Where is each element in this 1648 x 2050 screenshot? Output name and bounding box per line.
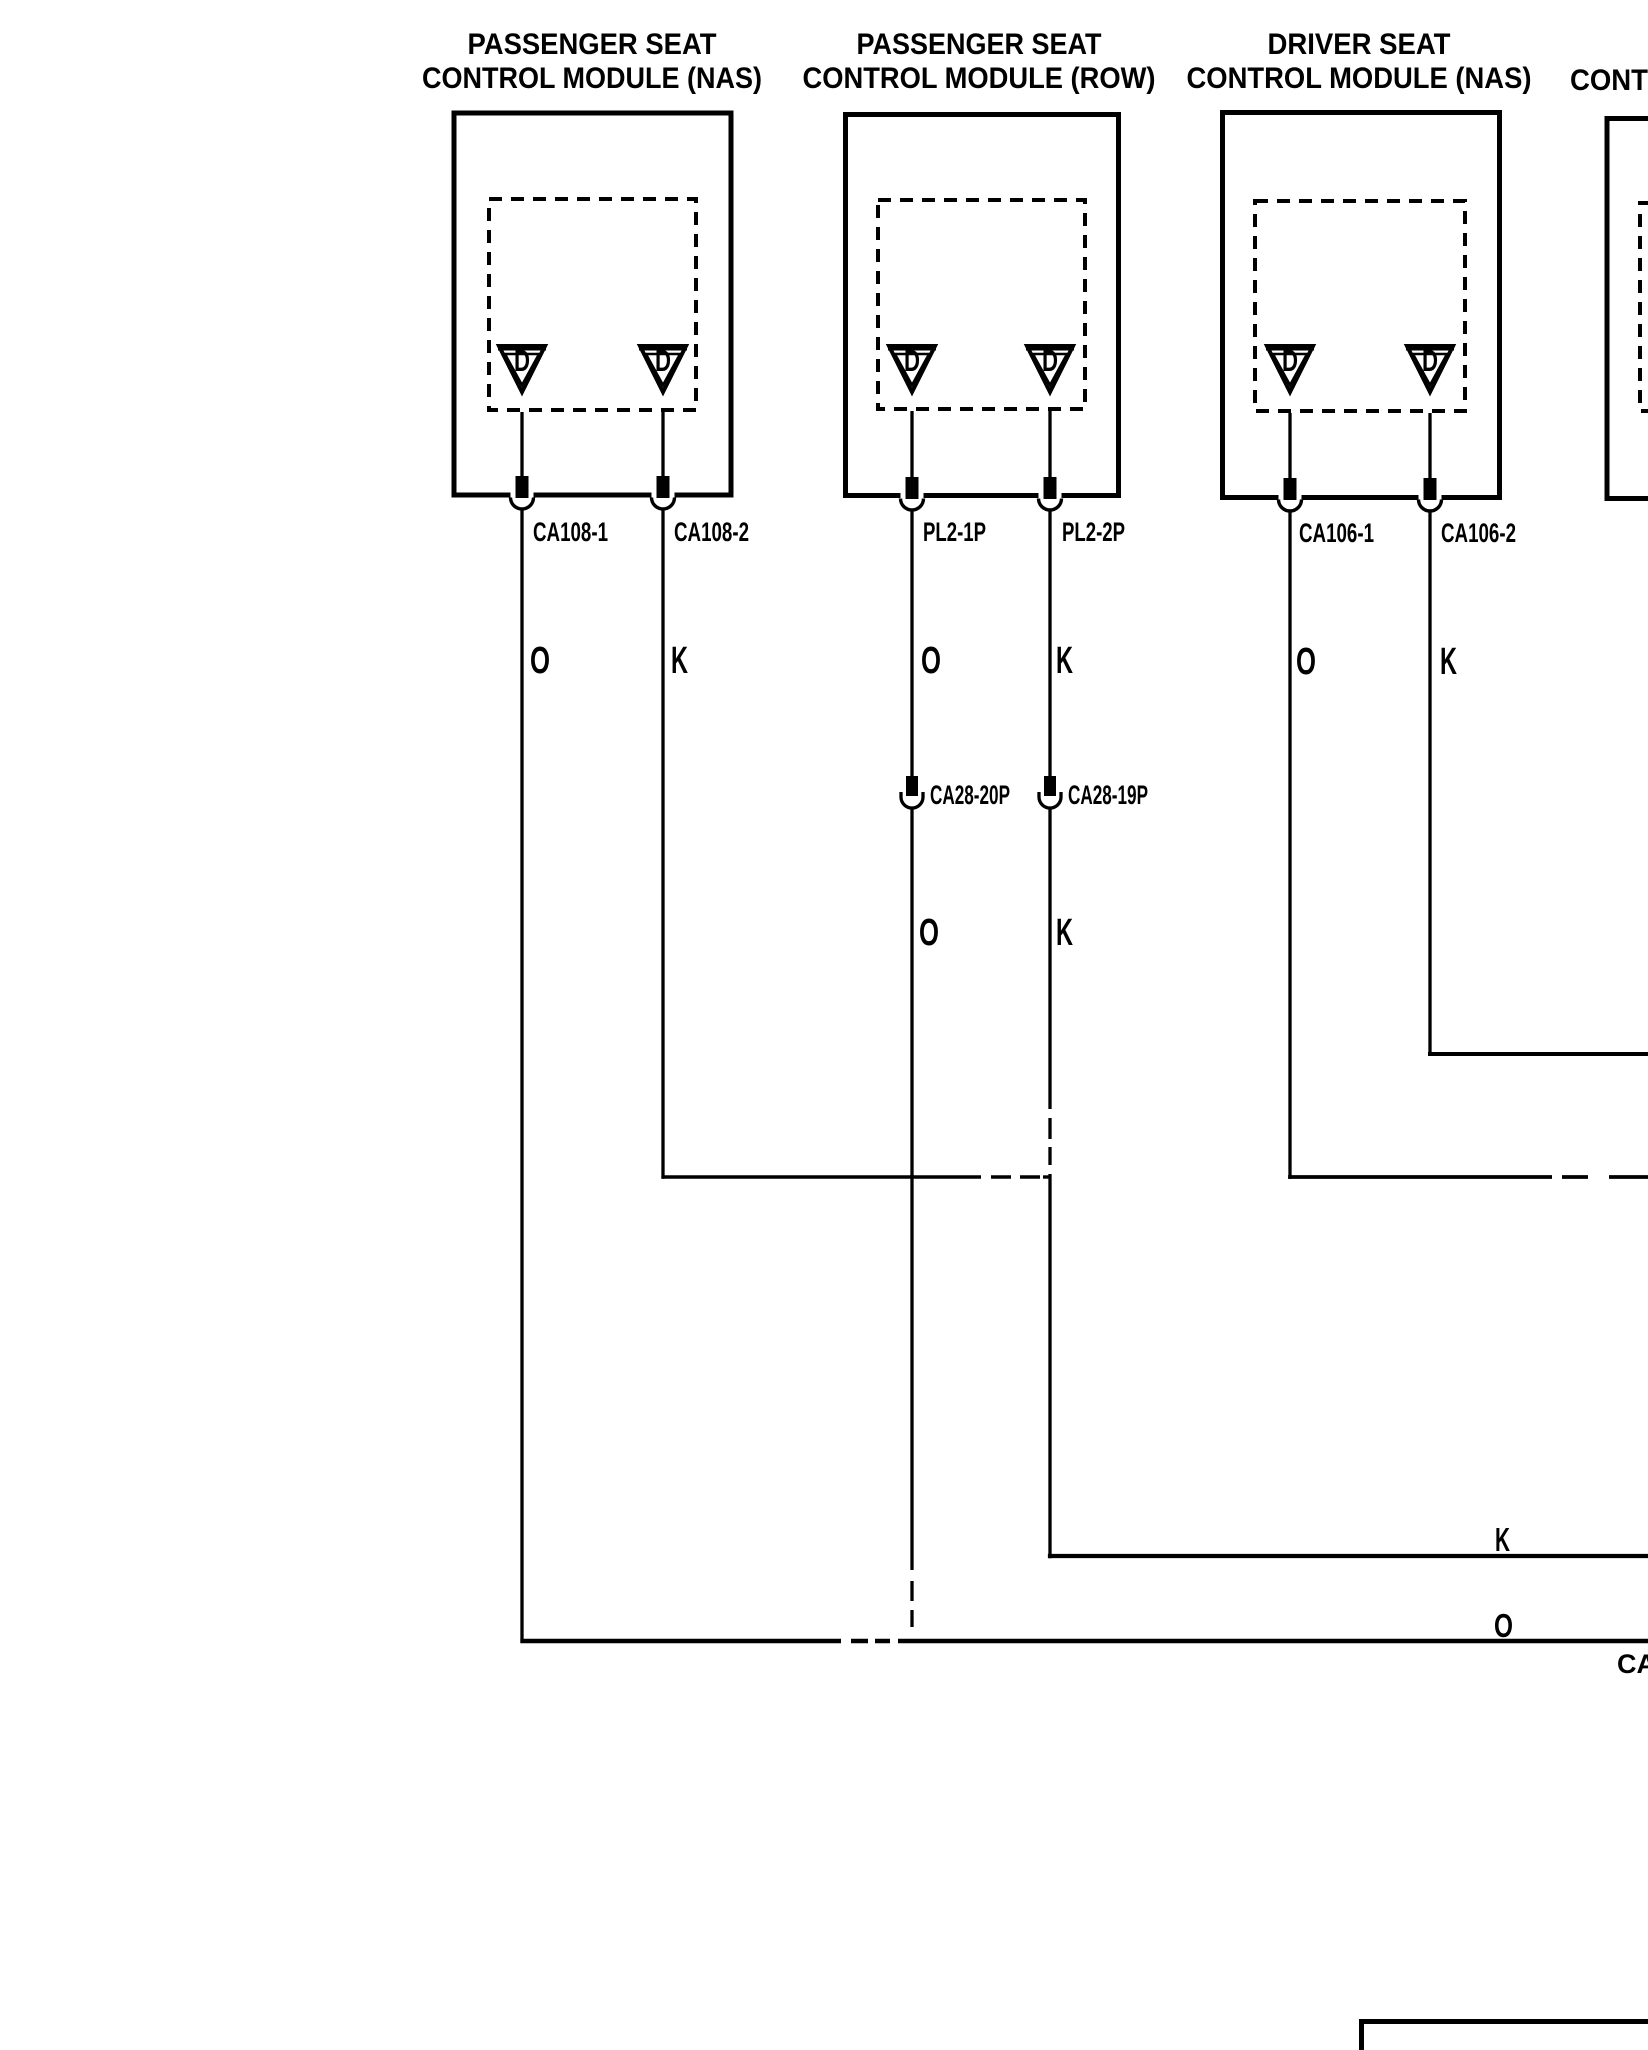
module U3 box	[1223, 113, 1500, 498]
connector cup PL2-2P	[1039, 499, 1062, 511]
svg-text:D: D	[1042, 343, 1058, 378]
wire net O3: U3 CA106-1 down then right	[1288, 511, 1291, 1179]
svg-text:D: D	[904, 343, 920, 378]
connector cup CA28-20P	[901, 792, 923, 808]
wire net K1: U1 CA108-2 down then right	[661, 509, 664, 1179]
pin CA106-2	[1419, 494, 1442, 501]
symbol D triangle U1-b	[639, 343, 687, 392]
svg-text:CONTROL MODULE (ROW): CONTROL MODULE (ROW)	[803, 62, 1156, 95]
svg-text:CA: CA	[1617, 1649, 1648, 1679]
wire U2 pin2 internal stub	[1048, 411, 1051, 478]
wire net O2 continues down	[910, 808, 913, 1570]
svg-text:D: D	[1282, 343, 1298, 378]
connector cup CA106-2	[1419, 500, 1442, 512]
wire net O1 solid to right edge	[898, 1639, 1648, 1643]
svg-text:CA106-2: CA106-2	[1441, 518, 1516, 548]
svg-text:PL2-1P: PL2-1P	[923, 517, 986, 547]
wire net O2 dashed to O bus	[910, 1570, 913, 1639]
pin PL2-2P	[1039, 493, 1062, 500]
wire U2 pin1 internal stub	[910, 411, 913, 478]
svg-text:O: O	[1494, 1607, 1513, 1644]
module U1 PASSENGER SEAT CONTROL MODULE (NAS) title	[422, 28, 762, 95]
module U3 inner dashed box	[1255, 201, 1465, 411]
module U1 box	[454, 113, 731, 495]
svg-text:CONTROL MODULE (NAS): CONTROL MODULE (NAS)	[422, 62, 762, 95]
connector cup CA28-19P	[1039, 792, 1061, 808]
connector cup CA108-2	[652, 498, 675, 510]
pin CA108-2	[652, 492, 675, 499]
svg-text:PL2-2P: PL2-2P	[1062, 517, 1125, 547]
pin PL2-1P	[901, 493, 924, 500]
wire net K2 continues down	[1048, 808, 1051, 1109]
module U4 inner dashed box (clipped)	[1640, 203, 1648, 411]
svg-text:O: O	[919, 912, 939, 954]
wire U3 pin1 internal stub	[1288, 413, 1291, 479]
module U2 box	[846, 115, 1119, 496]
svg-text:O: O	[1296, 641, 1316, 683]
svg-text:K: K	[1440, 641, 1457, 683]
svg-text:K: K	[1056, 640, 1073, 682]
pin CA106-1	[1279, 494, 1302, 501]
svg-text:K: K	[1495, 1521, 1510, 1558]
wire net K1 dashed run	[981, 1175, 1043, 1178]
wire U1 pin2 internal stub	[661, 412, 664, 477]
box bottom-right (clipped)	[1362, 2022, 1648, 2050]
svg-text:CONT: CONT	[1570, 64, 1648, 97]
wire net K2: U2 PL2-2P down to CA28-19P	[1048, 510, 1051, 776]
svg-text:CONTROL MODULE (NAS): CONTROL MODULE (NAS)	[1187, 62, 1532, 95]
svg-text:O: O	[530, 640, 550, 682]
pin CA28-20P	[906, 776, 918, 796]
svg-text:CA108-1: CA108-1	[533, 517, 608, 547]
wire net O1: U1 CA108-1 down and right to edge (O bus)	[520, 509, 523, 1643]
symbol D triangle U2-b	[1026, 343, 1074, 392]
svg-text:PASSENGER SEAT: PASSENGER SEAT	[468, 28, 717, 61]
wire net K2 down then right to edge (K bus)	[1048, 1174, 1051, 1558]
symbol D triangle U3-a	[1266, 343, 1314, 392]
symbol D triangle U3-b	[1406, 343, 1454, 392]
svg-text:D: D	[1422, 343, 1438, 378]
svg-text:CA106-1: CA106-1	[1299, 518, 1374, 548]
connector cup PL2-1P	[901, 499, 924, 511]
wire U1 pin1 internal stub	[520, 412, 523, 477]
svg-text:CA28-20P: CA28-20P	[930, 780, 1010, 810]
svg-text:O: O	[921, 640, 941, 682]
svg-text:CA28-19P: CA28-19P	[1068, 780, 1148, 810]
wire net O1 dashed break	[841, 1639, 898, 1643]
symbol D triangle U1-a	[498, 343, 546, 392]
pin CA108-1	[511, 492, 534, 499]
module U2 PASSENGER SEAT CONTROL MODULE (ROW) title	[803, 28, 1156, 95]
wire net K3: U3 CA106-2 down then right to edge	[1428, 511, 1431, 1056]
svg-text:D: D	[514, 343, 530, 378]
wire net O2: U2 PL2-1P down to CA28-20P	[910, 510, 913, 776]
module U4 box (clipped at right edge)	[1607, 119, 1648, 499]
svg-text:K: K	[671, 640, 688, 682]
wire net O3 dashed to right edge	[1552, 1175, 1648, 1179]
wire net K2 dashed segment	[1048, 1109, 1051, 1174]
svg-text:DRIVER SEAT: DRIVER SEAT	[1268, 28, 1451, 61]
pin CA28-19P	[1044, 776, 1056, 796]
symbol D triangle U2-a	[888, 343, 936, 392]
svg-text:D: D	[655, 343, 671, 378]
module U3 DRIVER SEAT CONTROL MODULE (NAS) title	[1187, 28, 1532, 95]
svg-text:CA108-2: CA108-2	[674, 517, 749, 547]
wire U3 pin2 internal stub	[1428, 413, 1431, 479]
svg-text:PASSENGER SEAT: PASSENGER SEAT	[857, 28, 1102, 61]
module U2 inner dashed box	[878, 200, 1085, 409]
svg-text:K: K	[1056, 912, 1073, 954]
module U1 inner dashed box	[489, 199, 696, 410]
connector cup CA106-1	[1279, 500, 1302, 512]
connector cup CA108-1	[511, 498, 534, 510]
wire net K1 corner stub	[1043, 1175, 1051, 1178]
